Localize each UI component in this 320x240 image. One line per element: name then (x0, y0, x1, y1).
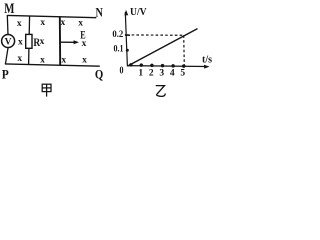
svg-text:x: x (40, 18, 45, 28)
axis dots (129, 63, 133, 67)
tick 0.2 (125, 34, 130, 36)
wire top rail M-N (7, 15, 96, 17)
caption yi (drawn) (156, 86, 166, 97)
svg-text:V: V (5, 38, 12, 48)
svg-text:x: x (61, 56, 66, 66)
svg-text:P: P (2, 67, 9, 81)
svg-text:5: 5 (180, 68, 185, 78)
resistor R (26, 34, 32, 48)
wire left branch lower (5, 47, 8, 64)
dashed level 0.2 (127, 34, 184, 36)
caption jia (drawn) (42, 84, 51, 96)
tick 0.1 (126, 49, 129, 52)
svg-text:x: x (17, 54, 22, 64)
svg-text:0: 0 (120, 65, 124, 76)
graph y-axis (125, 12, 127, 66)
svg-text:x: x (78, 18, 83, 28)
svg-text:U/V: U/V (130, 7, 147, 18)
svg-text:Q: Q (95, 66, 103, 81)
svg-text:x: x (61, 18, 66, 28)
svg-text:4: 4 (170, 68, 175, 78)
svg-text:1: 1 (138, 68, 143, 78)
wire resistor branch lower (28, 48, 30, 65)
svg-text:0.1: 0.1 (114, 45, 124, 55)
svg-text:N: N (96, 5, 103, 19)
svg-text:M: M (4, 1, 14, 17)
svg-text:x: x (82, 56, 87, 66)
dashed vertical t=5 (183, 35, 186, 66)
svg-text:3: 3 (159, 68, 164, 78)
svg-text:x: x (82, 39, 87, 49)
svg-text:x: x (40, 56, 45, 66)
svg-text:x: x (40, 37, 45, 47)
svg-text:2: 2 (149, 68, 154, 78)
svg-text:0.2: 0.2 (112, 30, 123, 40)
voltmeter V (2, 35, 15, 48)
wire bottom rail P-Q (5, 64, 100, 66)
svg-text:x: x (18, 38, 23, 48)
wire resistor branch upper (28, 16, 30, 35)
graph x-axis (127, 65, 206, 68)
svg-text:t/s: t/s (202, 54, 212, 65)
rod (slider) (59, 16, 61, 65)
wire left branch upper (6, 15, 9, 35)
velocity arrow (61, 41, 75, 43)
svg-text:x: x (17, 19, 22, 29)
U(t) line (128, 29, 198, 66)
